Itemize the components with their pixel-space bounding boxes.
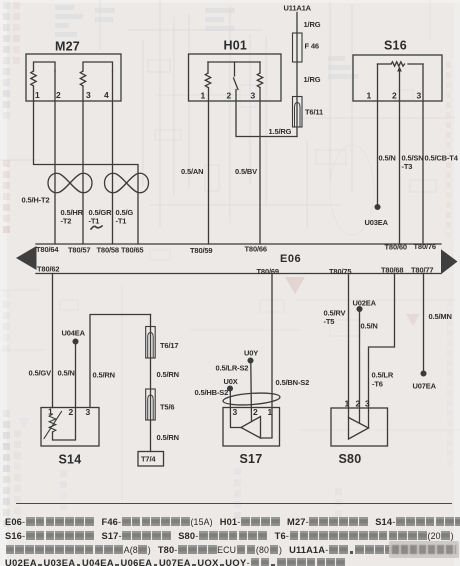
svg-text:0.5/HB-S2: 0.5/HB-S2	[195, 388, 229, 397]
wire U0X to S17 pin3	[230, 391, 241, 428]
wire H01 pin1 to T80/59	[208, 88, 210, 245]
connector T6/17	[146, 327, 156, 359]
legend line 2	[5, 531, 460, 542]
pressure sensor S80 body	[331, 408, 388, 446]
svg-text:T80/64: T80/64	[36, 245, 59, 254]
svg-text:0.5/GV: 0.5/GV	[29, 369, 52, 378]
wire T80/62 to S14 pin1	[52, 274, 54, 408]
svg-text:1: 1	[48, 407, 53, 417]
svg-text:S80: S80	[339, 452, 362, 466]
svg-text:1: 1	[367, 91, 372, 101]
svg-text:0.5/N: 0.5/N	[361, 322, 378, 331]
svg-text:E06: E06	[280, 253, 301, 265]
wire chain riser through connectors	[150, 315, 152, 452]
H01 spark gap contact	[234, 78, 239, 90]
svg-text:T6/11: T6/11	[305, 108, 323, 117]
wire U0Y to S17 pin2	[250, 363, 253, 422]
wire T80/68 to S80 pin3 (jog)	[369, 274, 395, 429]
svg-text:T80/76: T80/76	[414, 242, 436, 251]
svg-text:1: 1	[201, 91, 206, 101]
svg-text:S16: S16	[384, 39, 407, 53]
twisted pair symbol (wires 55/83)	[48, 173, 92, 192]
svg-text:2: 2	[69, 407, 74, 417]
wire T80/75 to S80 pin1	[348, 274, 350, 418]
node U02EA terminal	[357, 307, 362, 312]
connector T5/6	[146, 389, 156, 420]
node U0X terminal	[228, 386, 233, 391]
bus arrow left	[16, 246, 37, 270]
S17 sensor element triangle	[241, 417, 261, 439]
svg-text:T6/17: T6/17	[160, 341, 178, 350]
svg-text:U11A1A: U11A1A	[284, 4, 312, 13]
watermark stamp	[389, 541, 459, 558]
svg-text:3: 3	[251, 91, 256, 101]
svg-text:0.5/RN: 0.5/RN	[93, 371, 115, 380]
svg-text:0.5/MN: 0.5/MN	[429, 312, 452, 321]
svg-text:F 46: F 46	[305, 42, 319, 51]
svg-text:U04EA: U04EA	[62, 329, 86, 338]
node U03EA terminal	[375, 205, 380, 210]
svg-text:U03EA: U03EA	[365, 218, 389, 227]
svg-text:2: 2	[56, 90, 61, 100]
fuse F46	[293, 33, 303, 62]
margins	[0, 0, 7, 566]
pen squiggle mark	[91, 226, 102, 229]
legend line 3	[5, 545, 460, 556]
svg-text:T80/59: T80/59	[190, 246, 212, 255]
H01 primary winding	[205, 73, 210, 88]
svg-text:T80/57: T80/57	[68, 246, 90, 255]
svg-text:T80/62: T80/62	[37, 265, 59, 274]
svg-text:T5/6: T5/6	[160, 403, 174, 412]
S16 resistance track	[391, 62, 405, 66]
legend separator line	[16, 503, 452, 504]
svg-text:3: 3	[233, 407, 238, 417]
svg-text:0.5/N: 0.5/N	[379, 154, 396, 163]
svg-text:-T1: -T1	[89, 217, 100, 226]
svg-text:U0X: U0X	[224, 377, 238, 386]
wire M27 pin3 to T80/57	[82, 86, 84, 244]
wire M27 pin2 to T80/64	[54, 71, 56, 244]
svg-text:3: 3	[86, 90, 91, 100]
svg-text:S14: S14	[59, 453, 82, 467]
svg-text:0.5/RN: 0.5/RN	[157, 370, 179, 379]
twisted pair symbol (wires 112/138)	[105, 173, 149, 192]
svg-text:-T2: -T2	[61, 217, 72, 226]
wire S16 pin3 to T80/76	[422, 64, 424, 244]
svg-text:T80/60: T80/60	[385, 243, 407, 252]
svg-text:1.5/RG: 1.5/RG	[269, 127, 292, 136]
svg-text:0.5/LR: 0.5/LR	[372, 371, 394, 380]
svg-text:1: 1	[345, 399, 350, 409]
svg-text:0.5/BV: 0.5/BV	[235, 167, 257, 176]
wire U11A1A to junction	[296, 13, 298, 137]
svg-text:-T3: -T3	[402, 162, 413, 171]
bus arrow right	[441, 249, 458, 274]
ignition coil H01 body	[189, 54, 282, 101]
svg-text:-T6: -T6	[372, 380, 383, 389]
shielded cable ellipse	[223, 391, 281, 406]
node U07EA terminal	[421, 371, 426, 376]
svg-text:2: 2	[227, 91, 232, 101]
svg-text:-T5: -T5	[324, 317, 335, 326]
svg-text:3: 3	[417, 91, 422, 101]
wire H01 pin3 to T80/66	[259, 88, 261, 245]
H01 secondary winding	[257, 73, 262, 88]
wire T80/69 to S17 pin1	[261, 274, 273, 439]
wire T80/77 to U07EA	[423, 274, 425, 372]
wire M27 pin1 to T80/65 (jog right)	[34, 86, 139, 244]
svg-text:T80/69: T80/69	[257, 267, 279, 276]
svg-text:0.5/N: 0.5/N	[58, 369, 75, 378]
wire S16 pin2 to T80/60	[399, 71, 401, 244]
S80 sensor element triangle	[349, 418, 369, 440]
phase sensor S17 body	[223, 408, 280, 447]
svg-text:T80/66: T80/66	[245, 245, 267, 254]
svg-text:T80/68: T80/68	[381, 266, 403, 275]
svg-text:1/RG: 1/RG	[304, 20, 321, 29]
svg-text:H01: H01	[224, 39, 248, 53]
stepper motor M27 body	[26, 54, 121, 101]
svg-text:1: 1	[35, 90, 40, 100]
svg-text:T80/58: T80/58	[97, 246, 119, 255]
svg-text:0.5/H-T2: 0.5/H-T2	[22, 196, 50, 205]
svg-text:2: 2	[392, 91, 397, 101]
svg-text:2: 2	[253, 407, 258, 417]
ECU E06 bus lower rail	[36, 273, 441, 275]
coil winding L1 of M27	[31, 71, 36, 86]
svg-text:0.5/RN: 0.5/RN	[157, 433, 179, 442]
svg-text:2: 2	[356, 399, 361, 409]
svg-text:0.5/AN: 0.5/AN	[181, 167, 203, 176]
instrument connector T7/4 box	[138, 452, 164, 467]
svg-text:4: 4	[104, 90, 109, 100]
svg-text:M27: M27	[55, 40, 80, 54]
svg-text:U07EA: U07EA	[413, 382, 437, 391]
svg-text:-T1: -T1	[116, 217, 127, 226]
wire H01 pin2 to fuse chain junction	[236, 90, 297, 137]
S14 thermistor element	[44, 412, 62, 439]
throttle sensor S16 body	[353, 55, 442, 101]
svg-text:0.5/CB-T4: 0.5/CB-T4	[425, 154, 459, 163]
svg-text:T80/77: T80/77	[411, 266, 433, 275]
coolant sensor S14 body	[41, 408, 99, 447]
svg-text:3: 3	[365, 399, 370, 409]
svg-text:0.5/LR-S2: 0.5/LR-S2	[216, 364, 249, 373]
node U04EA terminal	[73, 339, 78, 344]
svg-text:U0Y: U0Y	[244, 349, 258, 358]
svg-text:1/RG: 1/RG	[304, 75, 321, 84]
svg-text:1: 1	[268, 407, 273, 417]
svg-text:T80/65: T80/65	[121, 246, 143, 255]
legend line 4	[5, 558, 460, 566]
wire U02EA to S80 pin2	[359, 311, 361, 423]
svg-text:3: 3	[86, 407, 91, 417]
svg-text:0.5/BN-S2: 0.5/BN-S2	[276, 378, 310, 387]
wire M27 pin4 to T80/58	[112, 71, 114, 244]
S16 wiper arrow	[397, 66, 402, 71]
svg-text:U02EA: U02EA	[353, 299, 377, 308]
coil winding L2 of M27	[80, 71, 85, 86]
ECU E06 bus upper rail	[36, 243, 441, 245]
legend line 1	[5, 517, 460, 528]
wire S14 pin3 to connector chain	[90, 315, 151, 408]
node U0Y terminal	[248, 358, 253, 363]
svg-text:S17: S17	[240, 452, 263, 466]
svg-text:T7/4: T7/4	[141, 455, 156, 464]
wire S16 pin1 to node U03EA	[377, 64, 379, 204]
wire U04EA to S14 pin2	[75, 344, 77, 407]
connector T6/11	[293, 97, 303, 128]
